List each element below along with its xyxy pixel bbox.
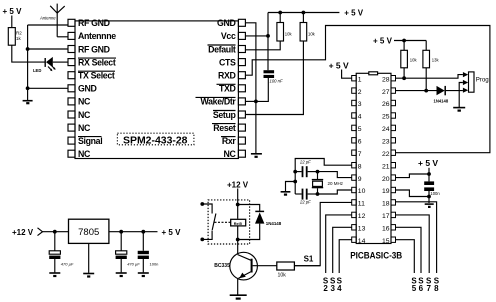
labels S5 S6 S7 S8 — [411, 276, 439, 293]
svg-text:28: 28 — [382, 76, 390, 83]
wire pin28 to Prog — [396, 75, 463, 79]
svg-text:NC: NC — [78, 149, 91, 159]
svg-text:2: 2 — [358, 89, 362, 96]
svg-text:5: 5 — [412, 284, 417, 293]
pin squares U1 left — [68, 19, 75, 157]
svg-text:R2: R2 — [16, 31, 22, 36]
wire base to R7 — [253, 265, 277, 267]
svg-text:Rel5: Rel5 — [234, 222, 242, 226]
U2 pin numbers right — [382, 76, 390, 245]
svg-text:26: 26 — [382, 101, 390, 108]
svg-text:23: 23 — [382, 139, 390, 146]
svg-text:6: 6 — [358, 139, 362, 146]
svg-text:7: 7 — [426, 284, 431, 293]
capacitor C2 22pF — [293, 159, 317, 177]
svg-text:+ 5 V: + 5 V — [344, 9, 364, 18]
node relay bottom — [236, 238, 240, 242]
wire OSC1 to pin9 — [316, 170, 352, 178]
regulator U3 7805 — [69, 219, 109, 243]
svg-text:19: 19 — [382, 188, 390, 195]
wire R2 to LED — [12, 45, 45, 62]
node GND pin6 — [26, 86, 68, 90]
capacitor C5 470uF — [49, 232, 74, 273]
wire gnd net crystal to pin8 — [295, 159, 352, 195]
wire pin12 to S2 — [326, 215, 352, 273]
svg-text:NC: NC — [223, 149, 236, 159]
wire RXD loop to PIC pin22 — [245, 26, 490, 153]
wire pin19 to gnd node — [396, 190, 430, 197]
IC U1 SPM2-433-28 body — [75, 21, 238, 159]
svg-text:10k: 10k — [410, 58, 418, 63]
svg-text:22 pF: 22 pF — [299, 199, 311, 204]
node RF GND pin3 — [26, 47, 68, 51]
svg-text:5: 5 — [358, 126, 362, 133]
svg-text:Antenne: Antenne — [39, 16, 56, 21]
antenna — [50, 4, 64, 37]
svg-text:100n: 100n — [150, 261, 159, 266]
svg-text:Antennne: Antennne — [78, 31, 116, 41]
diode D2 1N4148 — [396, 86, 463, 104]
svg-text:3: 3 — [358, 101, 362, 108]
svg-text:NC: NC — [78, 123, 91, 133]
wire 7805 output — [109, 231, 158, 233]
crystal X1 20 MHz — [312, 172, 344, 194]
wire C1 to GND bus — [256, 78, 268, 101]
svg-text:Vcc: Vcc — [221, 31, 236, 41]
svg-text:1N4148: 1N4148 — [434, 99, 449, 104]
svg-text:1: 1 — [358, 76, 362, 83]
svg-text:24: 24 — [382, 126, 390, 133]
svg-text:LED: LED — [33, 68, 41, 73]
U1 right overlines — [196, 45, 236, 137]
svg-text:22: 22 — [382, 151, 390, 158]
svg-text:TXD: TXD — [219, 84, 236, 94]
capacitor C7 100n — [138, 232, 159, 273]
svg-text:Signal: Signal — [78, 136, 102, 146]
wire 7805 gnd pin — [88, 243, 90, 273]
ground left — [23, 101, 33, 104]
wire input to 7805 — [43, 231, 69, 233]
relay contact terminal B — [200, 231, 212, 242]
svg-text:CTS: CTS — [219, 57, 236, 67]
svg-text:7: 7 — [358, 151, 362, 158]
wire coil to collector node — [237, 226, 239, 239]
svg-text:10k: 10k — [308, 31, 316, 36]
relay K1 dotted outline — [208, 200, 250, 244]
svg-text:3: 3 — [330, 284, 335, 293]
svg-text:Setup: Setup — [213, 110, 237, 120]
wire Vcc riser — [267, 13, 269, 71]
connector J1 Prog — [463, 72, 489, 93]
ground C7 — [138, 273, 149, 276]
pin squares U2 left — [352, 76, 357, 243]
transistor Q1 BC335 — [214, 240, 257, 295]
svg-text:+ 5 V: + 5 V — [418, 158, 438, 168]
wire pin18 to S8 — [396, 202, 437, 273]
svg-text:GND: GND — [217, 18, 236, 28]
svg-text:+ 5 V: + 5 V — [3, 7, 23, 16]
svg-text:+12 V: +12 V — [12, 228, 34, 237]
svg-text:7805: 7805 — [78, 227, 99, 238]
U1 left pin labels — [78, 18, 116, 159]
svg-text:TX Select: TX Select — [78, 71, 115, 81]
U2 pin numbers left — [358, 76, 366, 245]
ground 7805 — [83, 274, 94, 277]
svg-text:4: 4 — [337, 284, 342, 293]
svg-text:2: 2 — [323, 284, 328, 293]
wire ground bus left — [27, 25, 29, 100]
svg-text:GND: GND — [78, 84, 97, 94]
capacitor C3 22pF — [295, 189, 317, 205]
relay actuator dashed link — [215, 221, 231, 223]
svg-text:27: 27 — [382, 89, 390, 96]
resistor R6 13k — [423, 41, 440, 93]
wire pin11 to S1 net — [294, 202, 351, 265]
svg-text:11: 11 — [358, 201, 365, 208]
svg-text:12: 12 — [358, 213, 366, 220]
svg-text:6: 6 — [419, 284, 424, 293]
resistor R3 10k — [245, 11, 292, 50]
ground C5 — [49, 273, 60, 276]
svg-text:Default: Default — [208, 44, 236, 54]
labels S2 S3 S4 — [323, 276, 343, 293]
U1 right pin labels — [200, 18, 236, 159]
svg-text:Prog: Prog — [476, 76, 489, 83]
node relay top — [236, 203, 240, 207]
svg-text:10k: 10k — [285, 31, 293, 36]
wire pin13 to S3 — [333, 227, 352, 273]
U1 name box SPM2-433-28 — [117, 133, 193, 146]
wire R7 to S1 — [294, 265, 320, 267]
+5 V label right — [418, 158, 438, 181]
IC U2 PICBASIC-3B body — [356, 72, 391, 244]
wire OSC2 to pin10 — [316, 190, 352, 196]
svg-text:RF GND: RF GND — [78, 44, 110, 54]
svg-text:20 MHz: 20 MHz — [328, 181, 344, 186]
svg-text:+12 V: +12 V — [227, 180, 249, 189]
wire +5V to R2 — [11, 16, 13, 28]
svg-text:NC: NC — [78, 110, 91, 120]
pin squares U1 right — [238, 19, 245, 157]
U1 left overlines — [78, 58, 116, 137]
node C5 — [53, 230, 57, 234]
svg-text:100 nF: 100 nF — [270, 79, 283, 84]
wire pin14 to S4 — [339, 240, 352, 273]
svg-text:14: 14 — [358, 238, 366, 245]
+5V rail top — [268, 9, 364, 18]
relay switch blade — [212, 214, 216, 231]
wire +5V rail right — [394, 40, 426, 42]
svg-text:RXD: RXD — [218, 71, 236, 81]
svg-text:15: 15 — [382, 238, 390, 245]
wire GND bus middle — [245, 23, 257, 153]
svg-text:Rxr: Rxr — [222, 136, 237, 146]
ground middle — [251, 154, 262, 157]
svg-text:Wake/Dtr: Wake/Dtr — [200, 97, 236, 107]
ground C4 — [425, 204, 434, 207]
connector input chevron — [38, 228, 43, 236]
capacitor C6 470uF — [116, 232, 141, 273]
ground Q1 — [230, 295, 247, 298]
svg-text:Reset: Reset — [213, 123, 236, 133]
svg-text:10k: 10k — [278, 273, 287, 279]
svg-text:16: 16 — [382, 226, 390, 233]
svg-text:8: 8 — [358, 163, 362, 170]
svg-text:10: 10 — [358, 188, 366, 195]
svg-text:21: 21 — [382, 163, 390, 170]
relay coil K1 — [231, 219, 246, 226]
capacitor C1 100nF — [264, 70, 283, 83]
+5 V label PIC pin1 — [329, 60, 352, 78]
ground crystal — [281, 180, 298, 195]
wire pin16 to S6 — [396, 227, 422, 273]
diode D3 1N4148 flyback — [238, 205, 282, 240]
svg-text:13: 13 — [358, 226, 366, 233]
svg-text:+ 5 V: + 5 V — [329, 60, 349, 70]
ground Prog — [453, 108, 465, 111]
relay contact terminal A — [200, 202, 212, 213]
svg-text:RF GND: RF GND — [78, 18, 110, 28]
svg-text:9: 9 — [358, 176, 362, 183]
resistor R5 10k — [401, 39, 418, 81]
svg-text:S1: S1 — [304, 255, 314, 264]
svg-text:RX Select: RX Select — [78, 57, 116, 67]
svg-text:20: 20 — [382, 176, 390, 183]
ground C6 — [116, 273, 127, 276]
svg-text:18: 18 — [382, 201, 390, 208]
resistor R2 — [8, 28, 22, 46]
svg-text:8: 8 — [434, 284, 439, 293]
wire +12V to relay — [237, 189, 239, 219]
svg-text:100n: 100n — [430, 191, 440, 196]
svg-text:470 µF: 470 µF — [127, 261, 140, 266]
svg-text:+ 5 V: + 5 V — [162, 228, 182, 237]
svg-text:17: 17 — [382, 213, 390, 220]
wire pin17 to S7 — [396, 215, 430, 273]
svg-text:470 µF: 470 µF — [61, 261, 74, 266]
svg-text:4: 4 — [358, 114, 362, 121]
svg-text:BC335: BC335 — [214, 263, 230, 269]
resistor R7 10k — [277, 262, 295, 279]
svg-text:13k: 13k — [432, 58, 440, 63]
resistor R4 10k — [245, 11, 315, 115]
svg-text:+ 5 V: + 5 V — [373, 37, 393, 46]
svg-text:PICBASIC-3B: PICBASIC-3B — [350, 250, 402, 261]
wire antenna to pin 2 — [57, 36, 68, 38]
pin squares U2 right — [391, 76, 396, 243]
svg-text:NC: NC — [78, 97, 91, 107]
capacitor C4 100n — [424, 181, 440, 203]
wire RF GND pin1 left — [28, 24, 68, 26]
wire pin20 to +5V node — [396, 174, 430, 178]
svg-text:SPM2-433-28: SPM2-433-28 — [123, 135, 188, 146]
wire pin15 to S5 — [396, 240, 415, 273]
node C7 — [141, 230, 145, 234]
LED D1 — [45, 57, 68, 71]
node C6 — [119, 230, 123, 234]
svg-text:25: 25 — [382, 114, 390, 121]
svg-text:1k: 1k — [16, 36, 22, 41]
wire Prog middle to ground — [459, 83, 463, 108]
svg-text:1N4148: 1N4148 — [266, 221, 282, 226]
node Vcc — [245, 34, 270, 38]
svg-text:22 pF: 22 pF — [299, 159, 311, 164]
